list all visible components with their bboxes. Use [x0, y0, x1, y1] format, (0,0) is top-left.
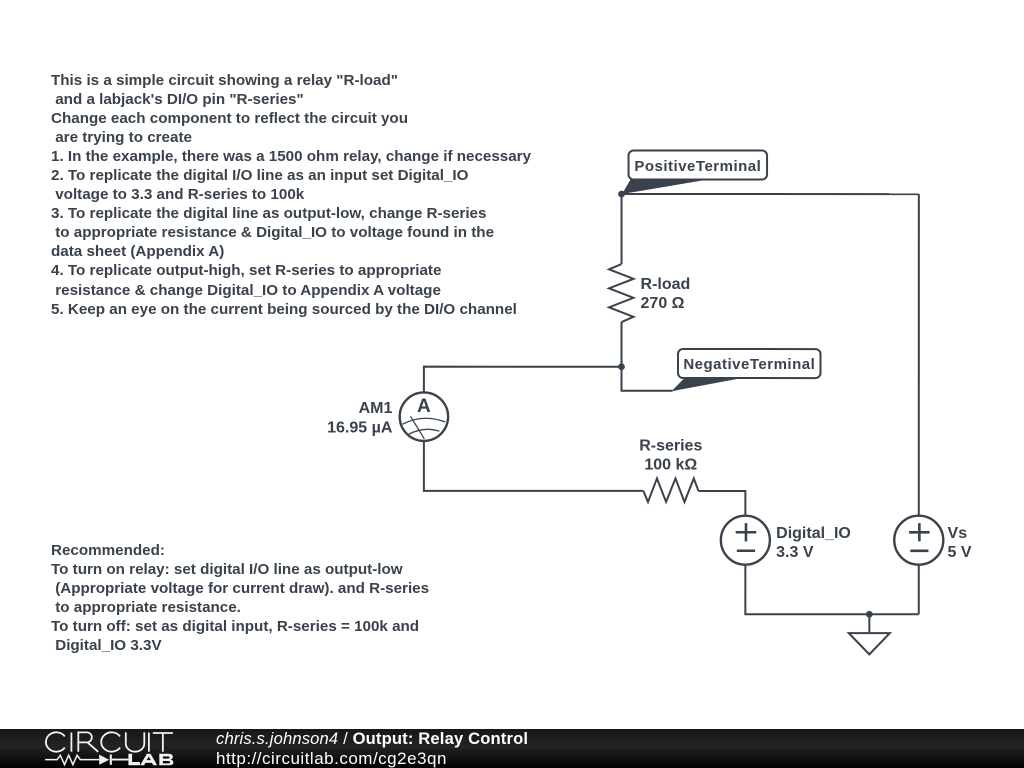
svg-text:Vs: Vs [948, 525, 968, 542]
CircuitLab logo [0, 729, 200, 768]
voltage source Digital_IO [721, 516, 770, 565]
svg-text:16.95 µA: 16.95 µA [327, 419, 393, 436]
wire node left to ammeter [424, 367, 622, 392]
resistor R-load [609, 264, 634, 322]
wire R-load to NegativeTerminal node [621, 322, 623, 367]
wire right rail vertical to Vs [918, 194, 920, 516]
logo letter T [153, 733, 173, 752]
resistor R-series [643, 478, 698, 502]
ground [849, 633, 890, 654]
logo letter C [46, 732, 65, 751]
svg-text:PositiveTerminal: PositiveTerminal [634, 158, 761, 175]
node NegativeTerminal junction [618, 363, 625, 370]
wire ground stub [868, 614, 870, 633]
logo resistor diode squiggle [45, 755, 128, 765]
voltage source Vs [894, 516, 943, 565]
logo letter I [70, 733, 72, 752]
recommended text block bottom [51, 541, 429, 655]
logo letter U [126, 732, 145, 751]
svg-text:R-load: R-load [641, 276, 691, 293]
wire Vs bottom to ground rail [918, 565, 920, 615]
svg-text:3.3 V: 3.3 V [776, 544, 814, 561]
node ground junction [866, 611, 873, 618]
svg-text:Digital_IO: Digital_IO [776, 525, 851, 542]
wire Digital_IO to ground rail [745, 565, 918, 615]
logo letter I [148, 733, 150, 752]
svg-text:R-series: R-series [639, 438, 702, 455]
node PositiveTerminal junction [618, 191, 625, 198]
ammeter AM1 [400, 392, 448, 440]
svg-text:100 kΩ: 100 kΩ [644, 457, 697, 474]
logo letter R [78, 732, 98, 751]
footer line 1 author/title [216, 729, 528, 749]
footer line 2 url [216, 749, 447, 768]
wire node to NegativeTerminal flag [621, 367, 672, 391]
flag PositiveTerminal [622, 151, 767, 195]
logo letter C [101, 732, 120, 751]
wire ammeter down and right to R-series [424, 442, 644, 491]
svg-text:NegativeTerminal: NegativeTerminal [683, 356, 815, 373]
svg-text:AM1: AM1 [359, 400, 393, 417]
wire R-series to Digital_IO [698, 491, 745, 516]
svg-text:270 Ω: 270 Ω [641, 295, 685, 312]
svg-text:A: A [417, 396, 431, 417]
svg-text:5 V: 5 V [948, 544, 972, 561]
wire PositiveTerminal node down to R-load [621, 194, 623, 264]
footer bar [0, 729, 1024, 768]
wire top horizontal PositiveTerminal node to right rail [622, 193, 919, 195]
flag NegativeTerminal [671, 349, 820, 391]
logo LAB letters [128, 754, 173, 766]
instruction text block top [51, 71, 531, 319]
